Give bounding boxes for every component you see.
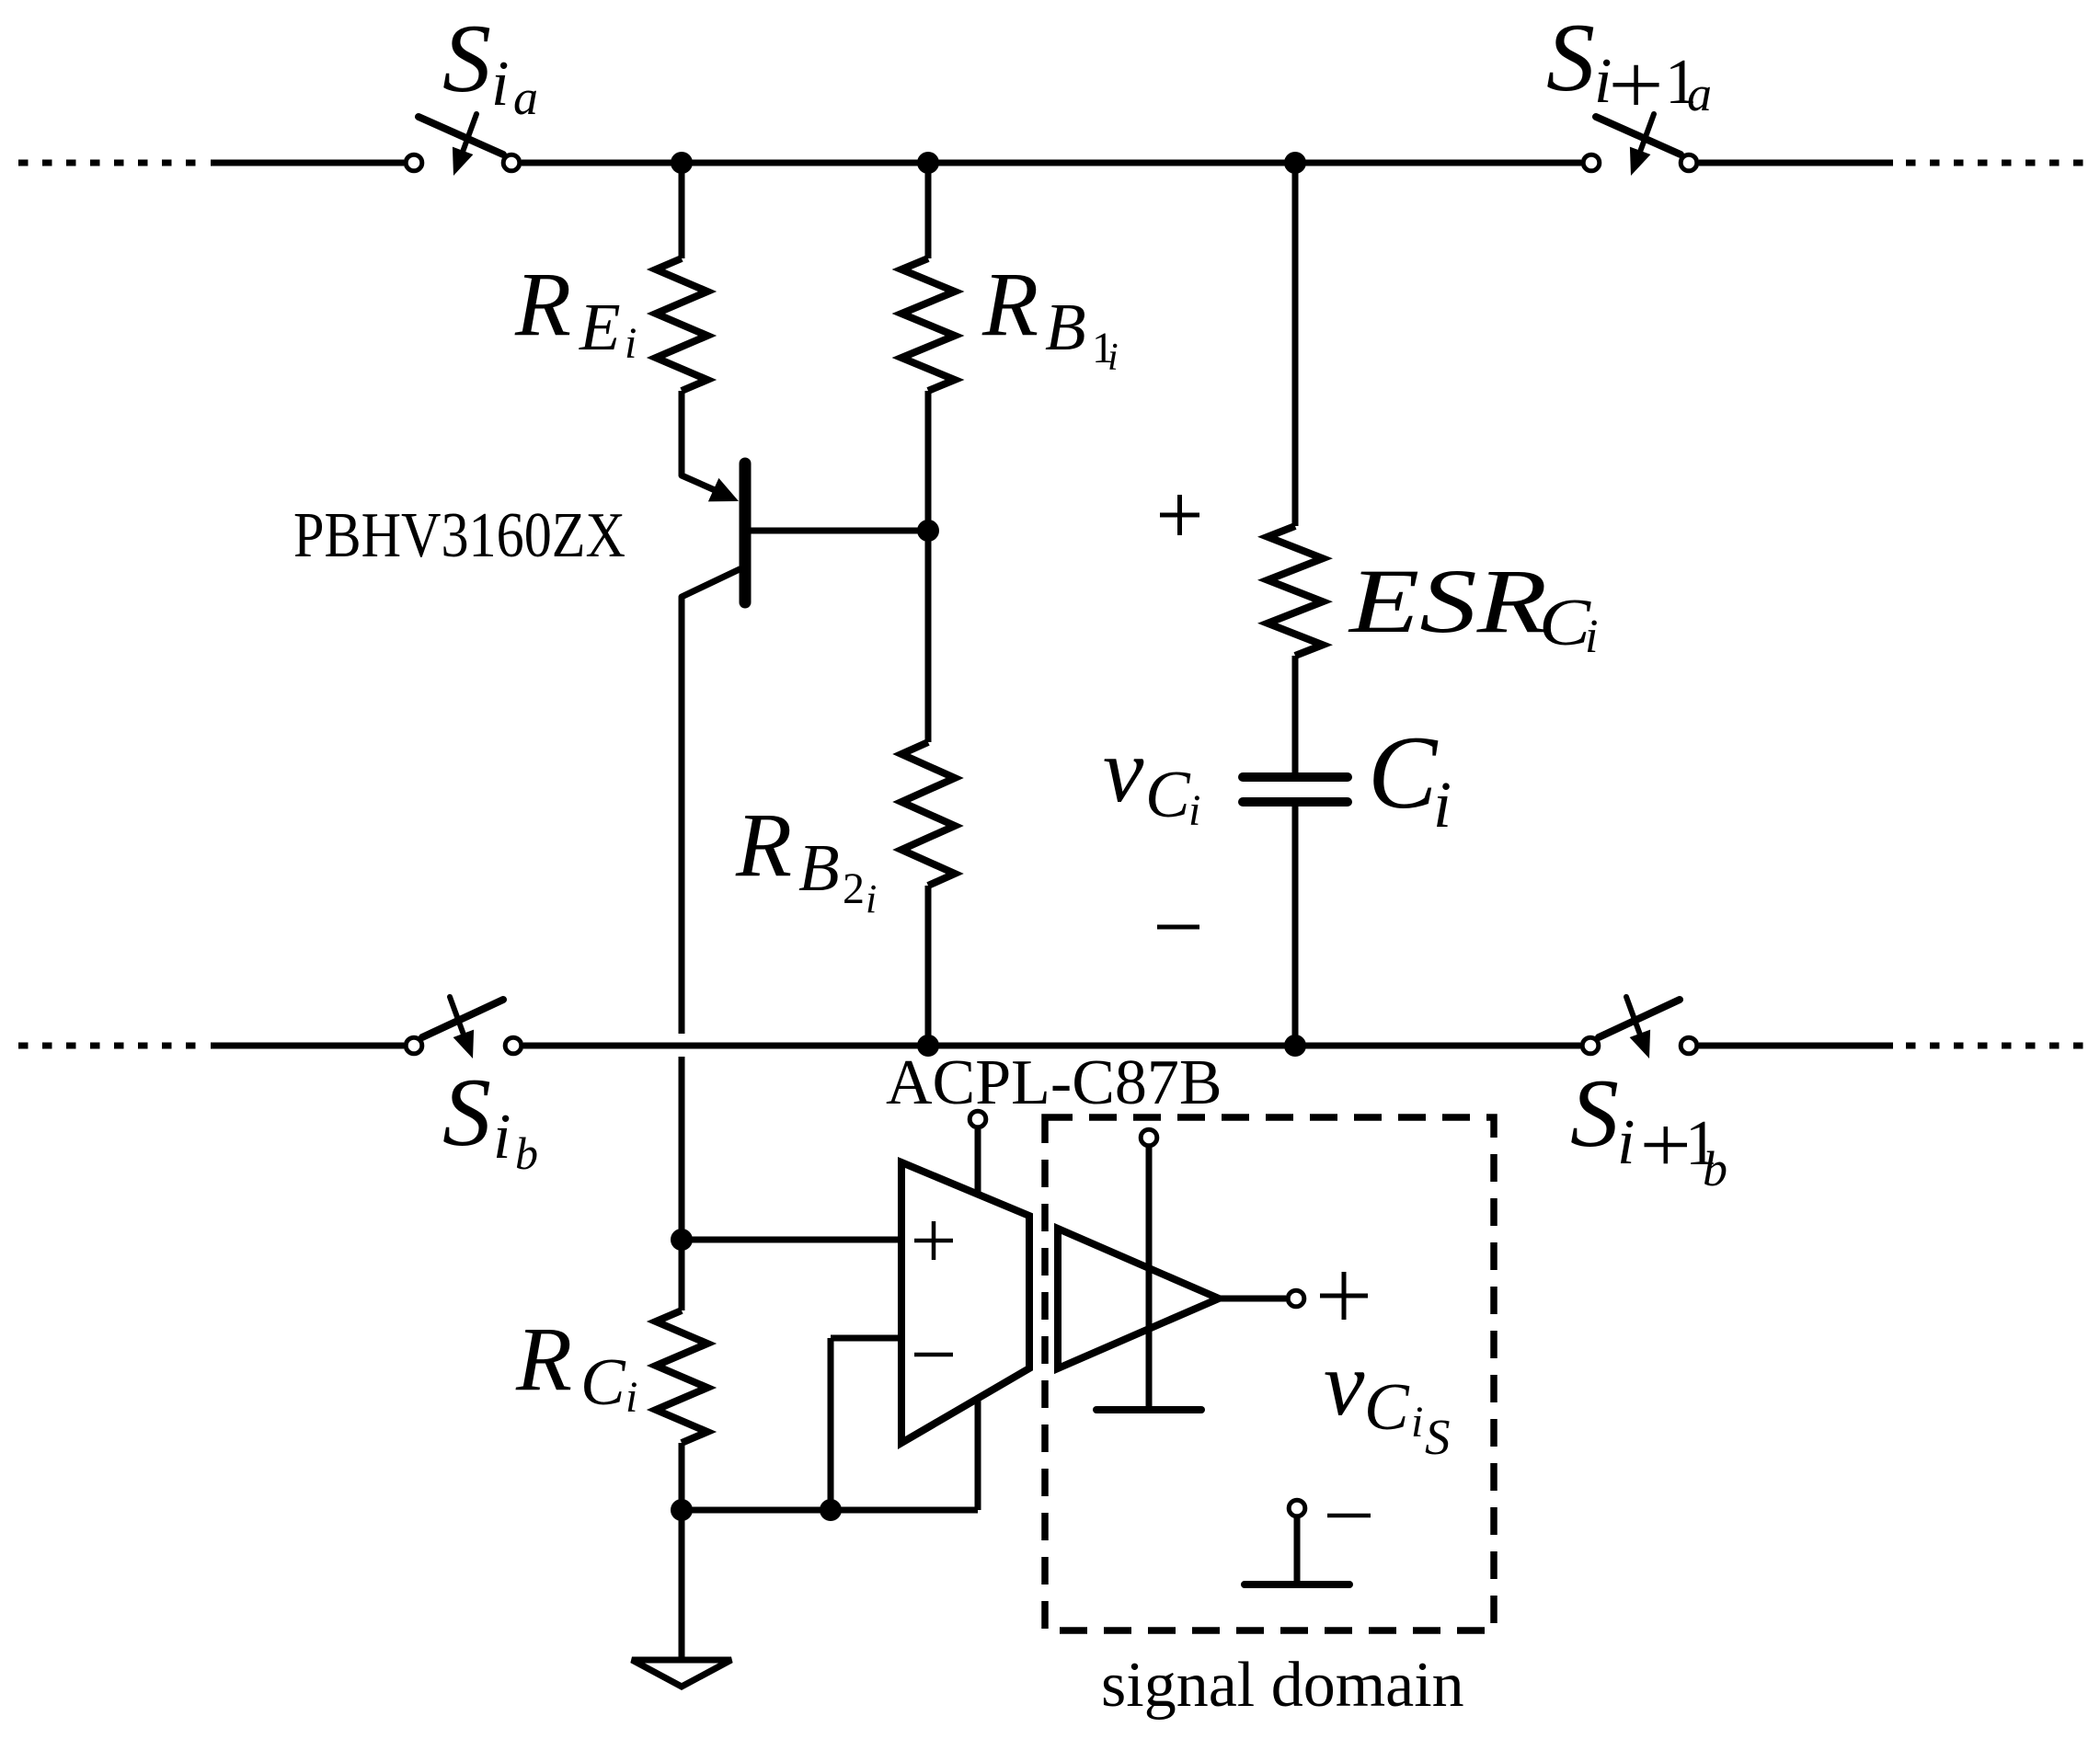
svg-text:i: i bbox=[866, 876, 877, 921]
svg-text:R: R bbox=[514, 253, 571, 355]
svg-text:i: i bbox=[1585, 611, 1598, 663]
svg-text:S: S bbox=[1425, 1409, 1451, 1465]
svg-text:b: b bbox=[515, 1127, 538, 1179]
svg-text:R: R bbox=[981, 253, 1039, 355]
svg-text:S: S bbox=[442, 5, 491, 112]
svg-text:i: i bbox=[1107, 337, 1119, 379]
svg-text:E: E bbox=[579, 290, 621, 364]
svg-text:ACPL-C87B: ACPL-C87B bbox=[886, 1047, 1222, 1118]
svg-text:B: B bbox=[1045, 290, 1086, 364]
svg-text:C: C bbox=[1145, 757, 1191, 831]
svg-text:S: S bbox=[1570, 1059, 1619, 1167]
svg-text:C: C bbox=[1364, 1369, 1410, 1444]
svg-text:i: i bbox=[1188, 786, 1200, 835]
svg-text:R: R bbox=[735, 794, 792, 896]
svg-text:ESR: ESR bbox=[1348, 550, 1547, 652]
svg-text:C: C bbox=[1368, 715, 1439, 830]
svg-text:signal domain: signal domain bbox=[1101, 1650, 1464, 1721]
svg-text:i: i bbox=[625, 1373, 637, 1422]
svg-text:i: i bbox=[1411, 1398, 1423, 1447]
svg-text:PBHV3160ZX: PBHV3160ZX bbox=[293, 500, 625, 571]
svg-text:i: i bbox=[493, 1102, 511, 1173]
svg-text:i: i bbox=[1594, 46, 1612, 117]
svg-text:i: i bbox=[1617, 1107, 1635, 1178]
svg-text:S: S bbox=[1546, 4, 1595, 111]
svg-text:B: B bbox=[798, 830, 840, 905]
svg-text:i: i bbox=[1433, 768, 1452, 841]
svg-text:S: S bbox=[442, 1058, 491, 1166]
svg-text:a: a bbox=[513, 70, 538, 125]
svg-text:b: b bbox=[1703, 1141, 1727, 1196]
svg-text:R: R bbox=[515, 1308, 572, 1410]
svg-text:v: v bbox=[1103, 719, 1144, 821]
svg-text:2: 2 bbox=[843, 864, 865, 913]
svg-text:a: a bbox=[1687, 66, 1712, 121]
svg-text:i: i bbox=[625, 319, 637, 368]
svg-text:C: C bbox=[1539, 585, 1591, 659]
svg-text:v: v bbox=[1324, 1333, 1365, 1435]
svg-text:C: C bbox=[580, 1344, 626, 1419]
svg-text:i: i bbox=[491, 49, 509, 120]
